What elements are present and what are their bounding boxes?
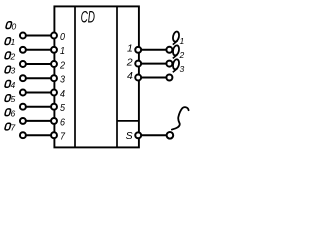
svg-text:1: 1: [127, 43, 133, 55]
svg-text:5: 5: [11, 94, 16, 104]
terminal circle Q1: [166, 47, 172, 53]
pin circle 6: [51, 118, 57, 124]
divider left field: [74, 6, 76, 147]
svg-text:3: 3: [60, 74, 65, 86]
wire input a0: [23, 35, 54, 37]
terminal circle a4: [20, 90, 26, 96]
pin circle out 4: [135, 75, 141, 81]
S cell divider: [117, 120, 139, 122]
wire output Q2: [138, 63, 169, 65]
svg-text:2: 2: [59, 59, 65, 71]
svg-text:0: 0: [12, 22, 17, 32]
svg-text:5: 5: [60, 102, 65, 114]
encoder box U1 outline: [54, 6, 138, 147]
wire input a1: [23, 49, 54, 51]
svg-text:2: 2: [10, 51, 16, 61]
pin circle 0: [51, 33, 57, 39]
svg-text:6: 6: [60, 116, 65, 128]
wire output Q3: [138, 77, 169, 79]
wire input a7: [23, 134, 54, 136]
terminal circle a2: [20, 61, 26, 67]
wire strobe S: [138, 134, 170, 136]
svg-text:S: S: [126, 130, 133, 142]
svg-text:1: 1: [180, 36, 185, 46]
output label Q1: [172, 31, 184, 46]
svg-text:4: 4: [127, 70, 133, 82]
input label a7: [5, 123, 16, 133]
pin circle out 2: [135, 61, 141, 67]
wire input a6: [23, 120, 54, 122]
terminal circle a5: [20, 104, 26, 110]
pin circle S: [135, 132, 141, 138]
svg-text:7: 7: [11, 123, 16, 133]
svg-text:2: 2: [126, 56, 133, 68]
wire input a2: [23, 63, 54, 65]
wire input a5: [23, 106, 54, 108]
input label a4: [5, 80, 16, 90]
svg-text:0: 0: [60, 31, 65, 43]
pin circle 1: [51, 47, 57, 53]
svg-text:4: 4: [11, 80, 16, 90]
input label a3: [5, 66, 16, 76]
terminal circle a3: [20, 75, 26, 81]
terminal circle a1: [20, 47, 26, 53]
terminal circle a0: [20, 33, 26, 39]
node label S external: [172, 107, 189, 129]
svg-text:4: 4: [60, 88, 65, 100]
pin circle 2: [51, 61, 57, 67]
pin circle out 1: [135, 47, 141, 53]
input label a5: [5, 94, 16, 104]
terminal circle S: [167, 132, 174, 139]
svg-text:6: 6: [11, 108, 16, 118]
input label a2: [5, 51, 16, 61]
svg-text:3: 3: [180, 64, 185, 74]
pin circle 7: [51, 132, 57, 138]
svg-text:1: 1: [11, 37, 16, 47]
divider right field: [116, 6, 118, 147]
pin circle 5: [51, 104, 57, 110]
pin circle 3: [51, 75, 57, 81]
svg-text:1: 1: [60, 45, 65, 57]
terminal circle a6: [20, 118, 26, 124]
terminal circle Q2: [166, 61, 172, 67]
wire output Q1: [138, 49, 169, 51]
svg-text:3: 3: [11, 66, 16, 76]
output label Q2: [172, 45, 184, 60]
output label Q3: [172, 59, 184, 74]
pin circle 4: [51, 90, 57, 96]
input label a1: [5, 37, 16, 47]
input label a0: [6, 22, 17, 32]
svg-text:CD: CD: [81, 8, 95, 27]
terminal circle a7: [20, 132, 26, 138]
svg-text:2: 2: [179, 50, 185, 60]
input label a6: [5, 108, 16, 118]
terminal circle Q3: [166, 75, 172, 81]
wire input a3: [23, 77, 54, 79]
wire input a4: [23, 92, 54, 94]
